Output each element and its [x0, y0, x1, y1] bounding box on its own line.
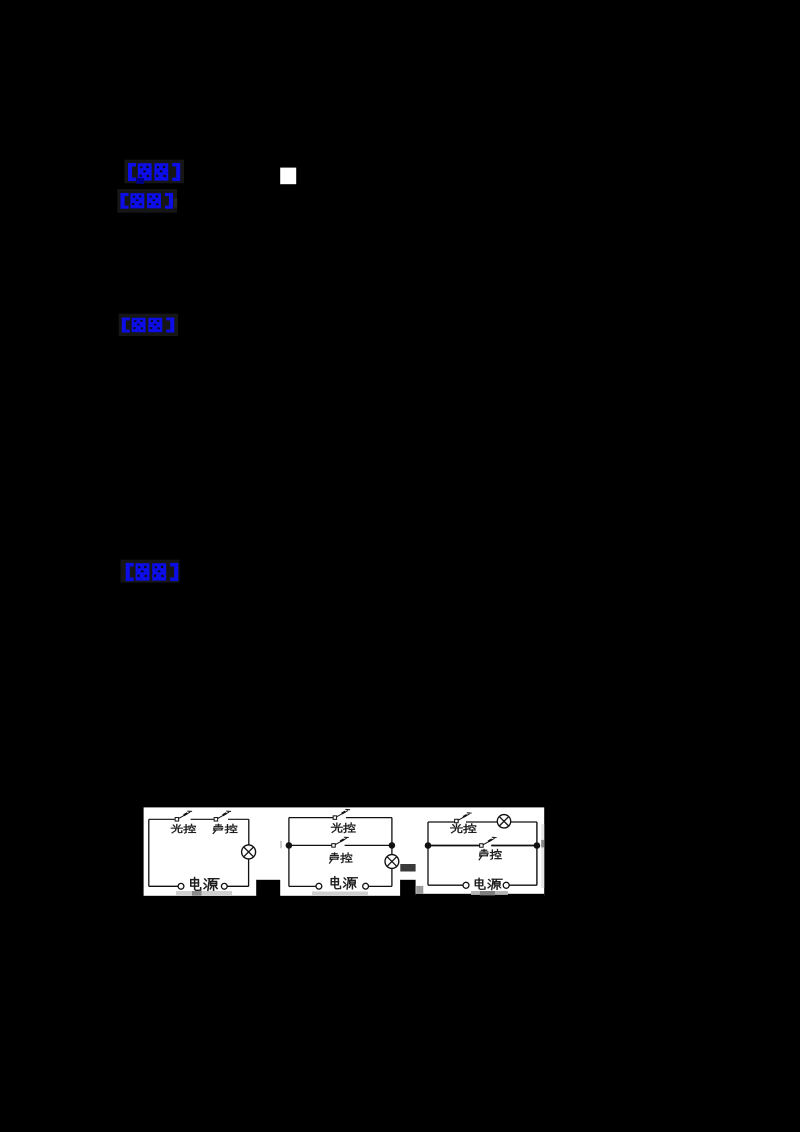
tag 【解答】 solution label	[119, 314, 179, 336]
lamp L3 (circuit C)	[497, 815, 510, 828]
switch S1 光控 (circuit A)	[175, 811, 192, 821]
switch S3 光控 (circuit B)	[333, 809, 350, 819]
circuit A bottom wire	[149, 885, 249, 887]
switch S6 声控 (circuit C)	[480, 837, 497, 847]
tag 【点评】 comment label	[121, 560, 180, 583]
grey smudge under 电源 C	[471, 891, 508, 895]
battery terminal left (circuit B)	[316, 883, 322, 889]
black notch between figure A and B	[256, 880, 280, 897]
label 声控 (circuit A)	[213, 824, 237, 833]
junction node left (circuit C)	[425, 842, 432, 849]
grey dash artifact left of circuit B	[280, 841, 282, 848]
circuit C bottom wire	[428, 884, 537, 886]
dark answer rect right of lamp L2	[400, 864, 415, 872]
label 电源 (circuit B)	[331, 877, 357, 889]
lamp L2 (circuit B)	[385, 855, 399, 869]
circuit C left wire	[427, 822, 429, 885]
battery terminal left (circuit C)	[463, 882, 469, 888]
label 电源 (circuit C)	[475, 878, 502, 889]
circuit B left wire	[288, 818, 290, 887]
circuit B right wire	[391, 818, 393, 887]
circuit C top wire	[428, 821, 537, 823]
tag 【考点】 answer-section label	[124, 160, 184, 184]
label 光控 (circuit A)	[171, 824, 195, 833]
battery terminal right (circuit B)	[363, 883, 369, 889]
battery terminal right (circuit A)	[221, 883, 227, 889]
circuit C right wire	[536, 822, 538, 885]
circuit A top wire	[149, 818, 249, 820]
junction node right (circuit C)	[534, 842, 541, 849]
black trim under figure C	[416, 894, 545, 897]
circuit B middle wire	[289, 844, 392, 846]
switch S5 光控 (circuit C)	[455, 813, 472, 823]
junction node left (circuit B)	[286, 842, 293, 849]
circuit C middle wire	[428, 845, 537, 847]
label 光控 (circuit B)	[331, 823, 355, 833]
white answer box	[280, 168, 296, 185]
figure background white strip	[144, 807, 545, 895]
lamp L1 (circuit A)	[242, 845, 256, 859]
grey artifact band right edge	[541, 824, 544, 888]
grey smudge under 电源 B	[312, 892, 368, 896]
circuit B bottom wire	[289, 885, 392, 887]
junction node right (circuit B)	[389, 842, 396, 849]
label 光控 (circuit C)	[451, 824, 476, 833]
battery terminal right (circuit C)	[503, 882, 509, 888]
grey answer square in notch	[416, 886, 423, 894]
label 电源 (circuit A)	[191, 878, 219, 891]
switch S4 声控 (circuit B)	[332, 837, 349, 847]
circuit A right wire	[248, 819, 250, 886]
tag 【分析】 analysis label	[117, 189, 177, 213]
circuit A left wire	[148, 819, 150, 886]
switch S2 声控 (circuit A)	[214, 811, 231, 821]
battery terminal left (circuit A)	[178, 883, 184, 889]
label 声控 (circuit C)	[479, 849, 501, 859]
label 声控 (circuit B)	[330, 853, 352, 863]
black notch between figure B and C	[400, 880, 416, 897]
grey smudge under 电源 A	[176, 891, 232, 895]
circuit B top wire	[289, 817, 392, 819]
